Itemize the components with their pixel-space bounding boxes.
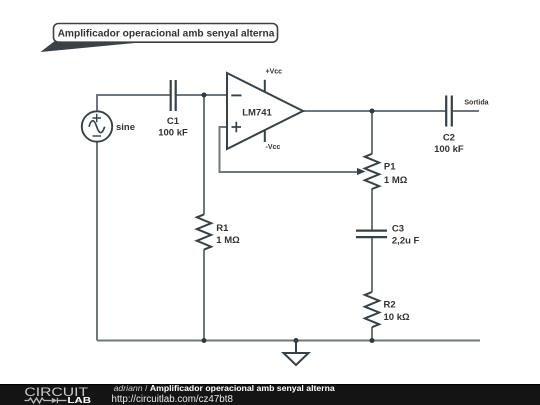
footer bar [0, 384, 540, 405]
logo waveform resistor and diode [25, 398, 67, 403]
wire: R1 to ground rail [203, 250, 205, 341]
wire: feedback from + input to P1 wiper [220, 127, 358, 172]
svg-text:C3: C3 [392, 224, 404, 235]
potentiometer P1 [365, 154, 379, 189]
annotation callout box [54, 24, 278, 43]
svg-text:P1: P1 [384, 162, 396, 173]
svg-text:adriann / Amplificador operaci: adriann / Amplificador operacional amb s… [114, 383, 335, 393]
wire: C2 to Sortida [452, 110, 479, 112]
annotation callout tail [41, 42, 152, 53]
svg-text:100 kF: 100 kF [434, 144, 464, 155]
P1 wiper arrow [357, 168, 366, 175]
voltage source V1 sine [82, 111, 112, 141]
svg-text:1 MΩ: 1 MΩ [384, 175, 408, 186]
svg-text:http://circuitlab.com/cz47bt8: http://circuitlab.com/cz47bt8 [112, 394, 234, 405]
op-amp +Vcc pin [264, 80, 266, 92]
junction: output node [370, 109, 375, 114]
wire: source top to C1 [97, 95, 170, 112]
wire: op-amp output to C2 [303, 110, 446, 112]
svg-text:C1: C1 [167, 116, 180, 127]
wire: ground rail [97, 340, 480, 342]
svg-text:Sortida: Sortida [464, 99, 488, 106]
resistor R2 [365, 292, 379, 327]
svg-text:2,2u F: 2,2u F [392, 236, 420, 247]
wire: R2 to ground rail [371, 327, 373, 341]
wire: C3 to R2 [371, 238, 373, 292]
svg-text:Amplificador operacional amb s: Amplificador operacional amb senyal alte… [58, 28, 275, 39]
junction: R1 at ground rail [202, 338, 207, 343]
wire: output node to P1 [371, 111, 373, 154]
svg-text:sine: sine [116, 122, 135, 133]
op-amp U1 LM741 [227, 73, 303, 149]
wire: source bottom to ground rail [96, 142, 98, 341]
svg-text:10 kΩ: 10 kΩ [384, 312, 410, 323]
op-amp -Vcc pin [264, 130, 266, 142]
ground symbol [284, 341, 309, 366]
capacitor C3 [356, 231, 387, 238]
junction: input node [202, 93, 207, 98]
svg-text:R2: R2 [384, 300, 396, 311]
wire: C1 to op-amp inverting input [176, 94, 227, 96]
svg-text:R1: R1 [216, 223, 229, 234]
wire: P1 to C3 [371, 189, 373, 230]
wire: input node down to R1 [203, 95, 205, 215]
svg-text:1 MΩ: 1 MΩ [216, 235, 240, 246]
svg-text:100 kF: 100 kF [158, 128, 188, 139]
svg-text:-Vcc: -Vcc [266, 144, 281, 151]
svg-text:LM741: LM741 [242, 107, 272, 118]
svg-text:C2: C2 [443, 133, 455, 144]
junction: ground at rail [294, 338, 299, 343]
svg-text:LAB: LAB [67, 395, 91, 405]
capacitor C2 [446, 96, 452, 127]
capacitor C1 [171, 80, 176, 111]
svg-text:+Vcc: +Vcc [266, 69, 283, 76]
junction: R2 at ground rail [370, 338, 375, 343]
resistor R1 [197, 214, 211, 249]
